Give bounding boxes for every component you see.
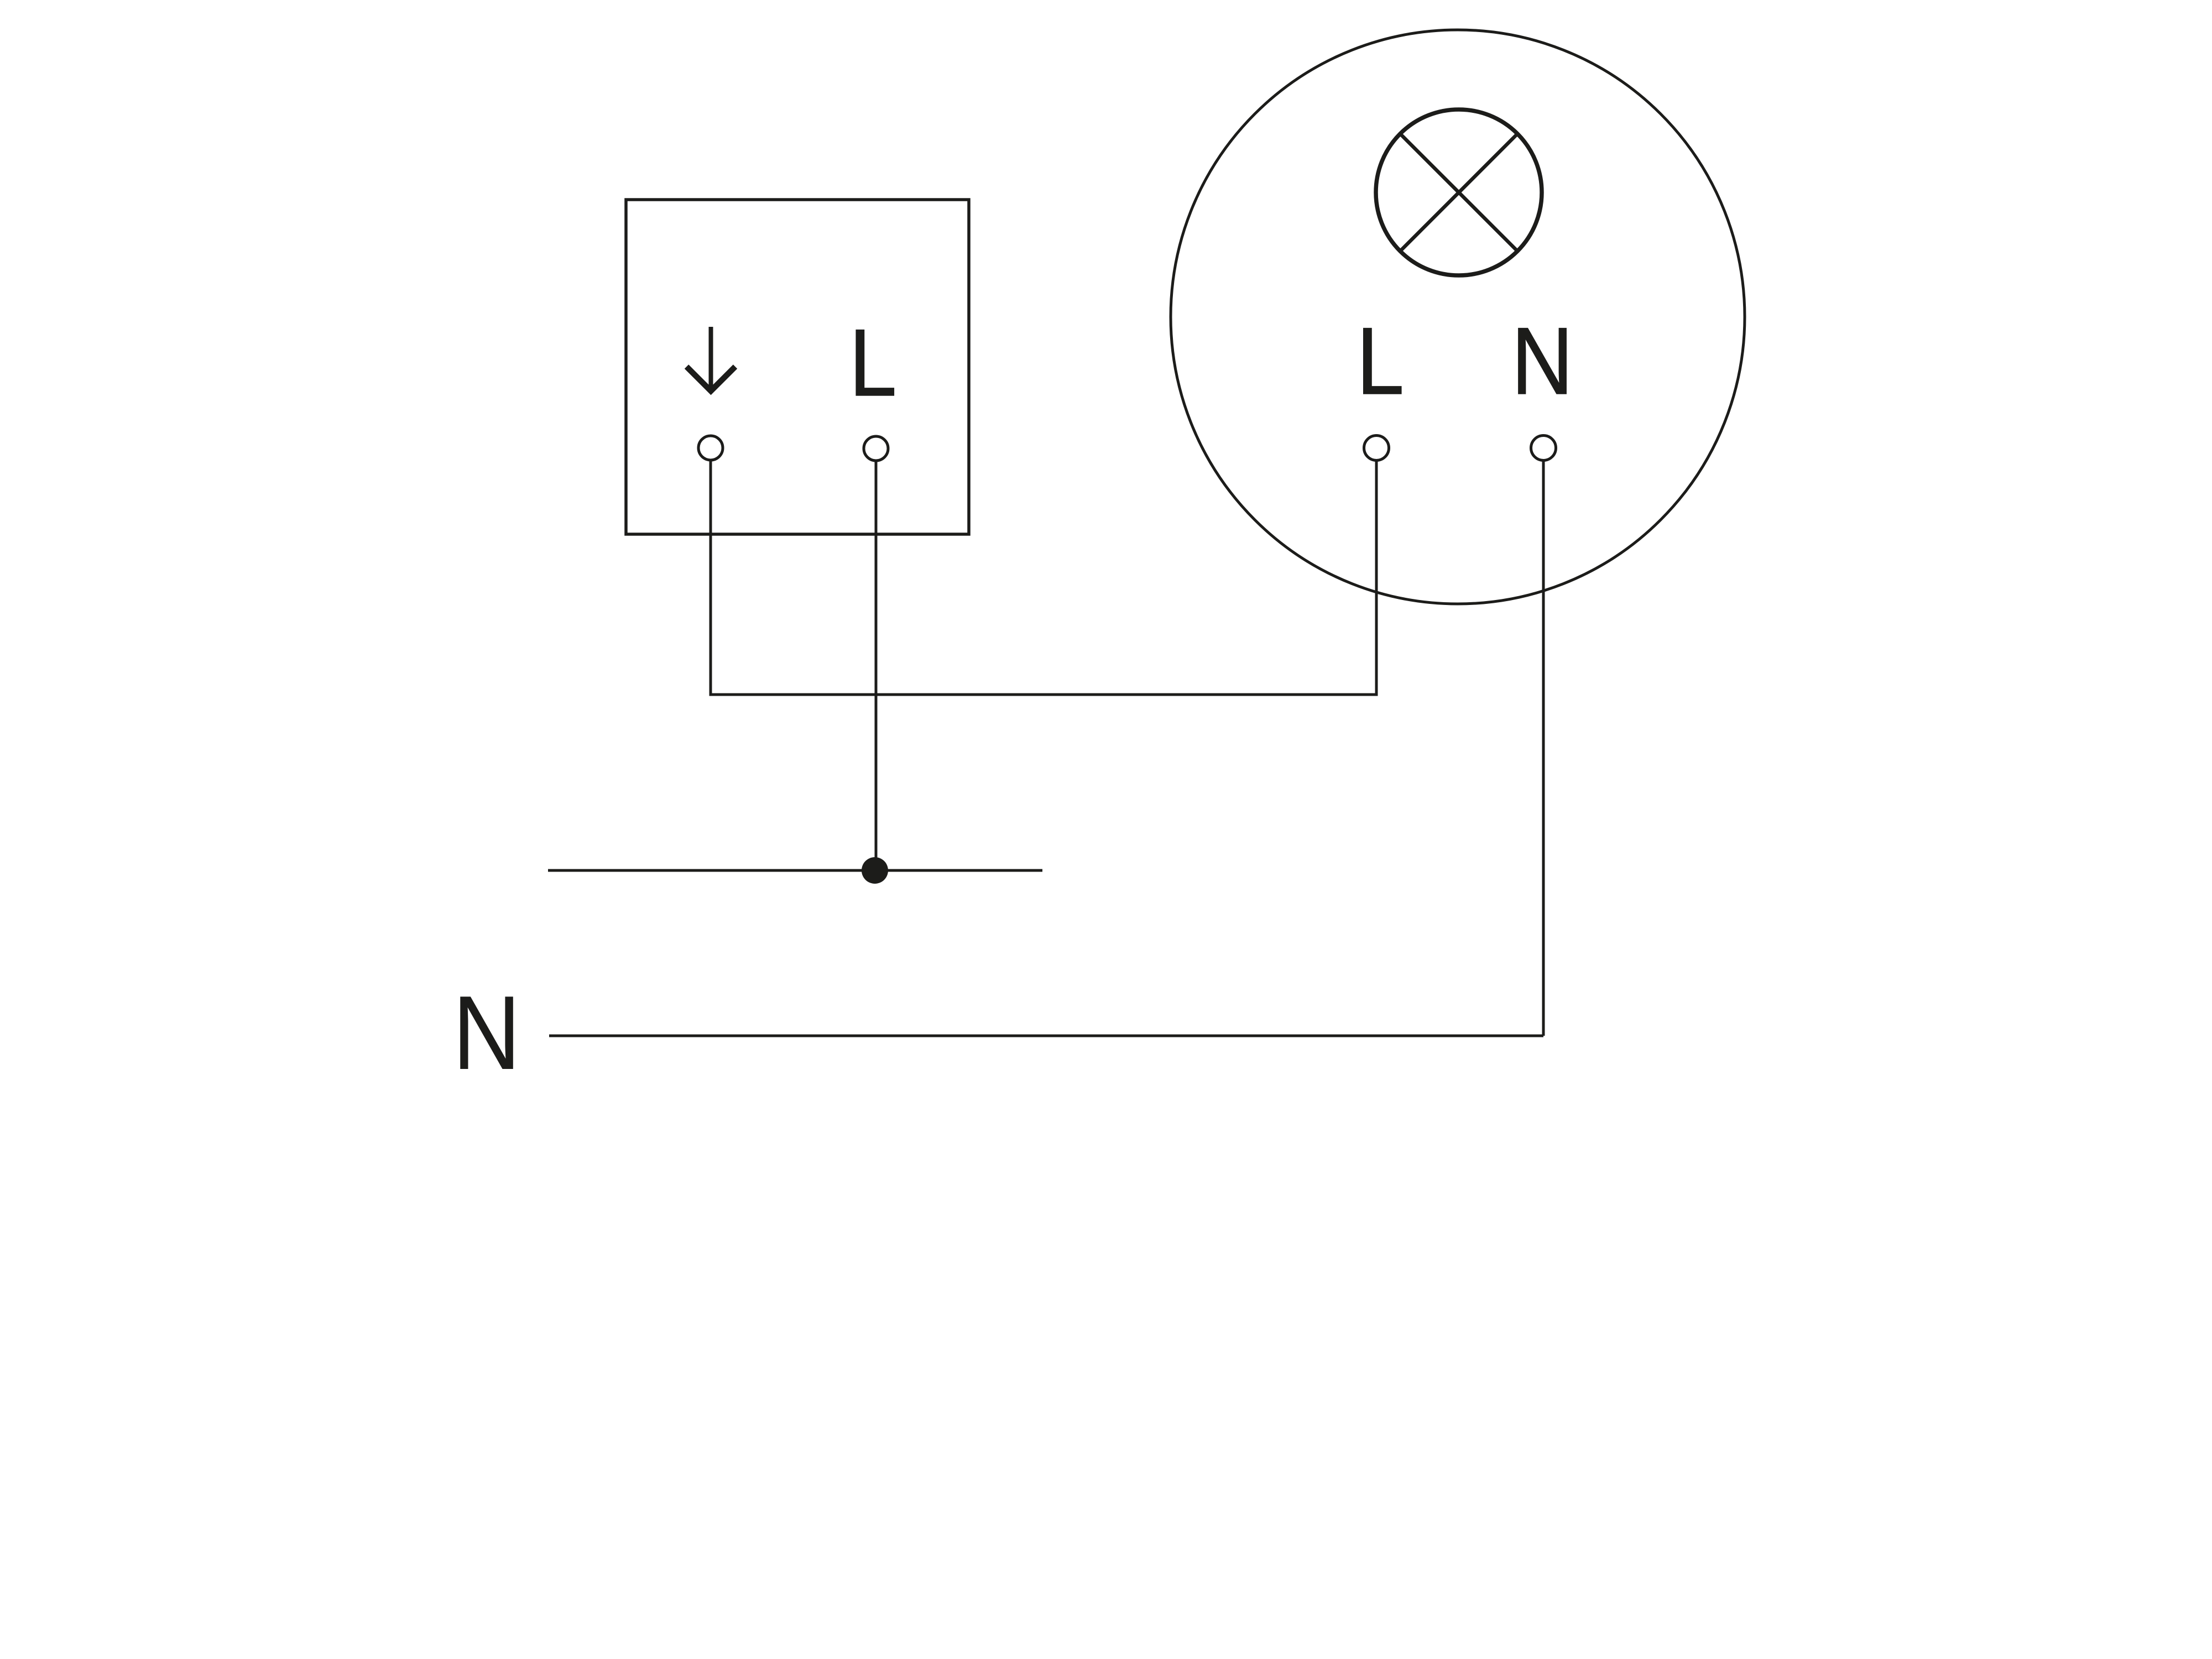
svg-text:N: N (1511, 307, 1573, 414)
svg-text:L: L (849, 309, 896, 415)
svg-text:N: N (452, 974, 520, 1092)
svg-text:L: L (1357, 307, 1404, 414)
